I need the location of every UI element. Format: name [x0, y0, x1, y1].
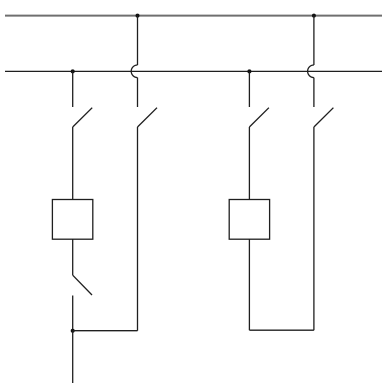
wire: branch 2 vertical, contact to bottom horizontal — [137, 127, 139, 331]
contact S4 (NO contact blade, branch 3) — [249, 108, 269, 127]
wire: branch 2 vertical, hop to contact — [137, 78, 139, 107]
node: junction dot on L1, branch 4 — [312, 14, 316, 18]
bus wire L2 (second horizontal rail) — [5, 70, 382, 72]
coil K2 (box) — [229, 200, 269, 240]
wire: branch 3 vertical, coil K2 to bottom horizontal — [248, 239, 250, 330]
wire: branch 2 vertical, L1 to hop — [137, 16, 139, 65]
coil K1 (box) — [52, 200, 92, 240]
node: junction dot on L1, branch 2 — [136, 14, 140, 18]
contact S3 (NO contact blade, branch 2) — [138, 108, 158, 127]
wire: bottom horizontal connecting branch 1 to branch 2 — [73, 330, 138, 332]
wire: branch 3 vertical, L2 to contact — [248, 71, 250, 107]
wire: bottom horizontal connecting branch 3 to branch 4 — [249, 329, 314, 331]
wire: branch 3 vertical, contact to coil K2 — [248, 127, 250, 200]
wire: branch 1 vertical tail below junction — [72, 331, 74, 383]
wire: branch 1 vertical, L2 to contact — [72, 71, 74, 107]
wire: branch 4 vertical, L1 to hop — [313, 16, 315, 65]
wire hop (crossover arc over L2, branch 2) — [131, 65, 137, 78]
wire hop (crossover arc over L2, branch 4) — [308, 65, 314, 78]
node: junction dot on L2, branch 1 — [71, 69, 75, 73]
node: bottom junction dot, branch 1 — [71, 329, 75, 333]
contact S1 (NO contact blade, branch 1) — [73, 108, 93, 127]
contact S5 (NO contact blade, branch 4) — [314, 108, 334, 127]
wire: branch 4 vertical, contact to bottom horizontal — [313, 127, 315, 330]
bus wire L1 (top horizontal rail) — [5, 15, 382, 17]
wire: branch 1 vertical, coil K1 to contact S2 — [72, 239, 74, 275]
wire: branch 1 vertical, contact S2 to bottom node — [72, 296, 74, 331]
wire: branch 1 vertical, contact to coil K1 — [72, 127, 74, 200]
node: junction dot on L2, branch 3 — [247, 69, 251, 73]
contact S2 (blade from upper terminal, branch 1 lower contact) — [73, 275, 92, 295]
wire: branch 4 vertical, hop to contact — [313, 78, 315, 107]
